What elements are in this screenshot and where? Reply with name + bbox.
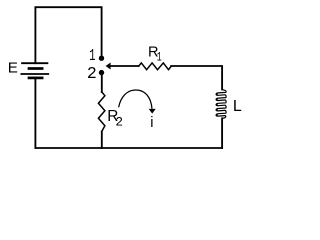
wire R2 to bottom [101,132,103,149]
svg-text:2: 2 [115,115,123,130]
wire R1 to top-right corner and down to inductor [171,66,222,90]
switch blade arrow head [106,63,111,70]
current arrow i head [149,109,156,114]
wire battery to bottom-left corner [34,79,36,148]
wire inductor to bottom-right corner [221,118,223,148]
inductor L coil left loop knots [216,93,218,116]
svg-text:i: i [150,115,153,131]
inductor L coil [216,89,226,119]
wire node 2 to resistor R2 [101,74,103,92]
battery E plates [21,63,48,78]
svg-text:E: E [8,60,18,77]
resistor R1 zigzag [139,63,172,70]
svg-text:1: 1 [157,49,162,64]
node 2 [99,70,104,75]
svg-text:L: L [233,98,242,115]
wire bottom [35,147,222,149]
node 1 [99,56,104,61]
svg-text:2: 2 [87,64,97,83]
wire switch arrow shaft to R1 [110,65,139,67]
wire top-left loop [35,7,101,63]
current arrow i arc [119,90,152,109]
resistor R2 zigzag [98,92,105,132]
